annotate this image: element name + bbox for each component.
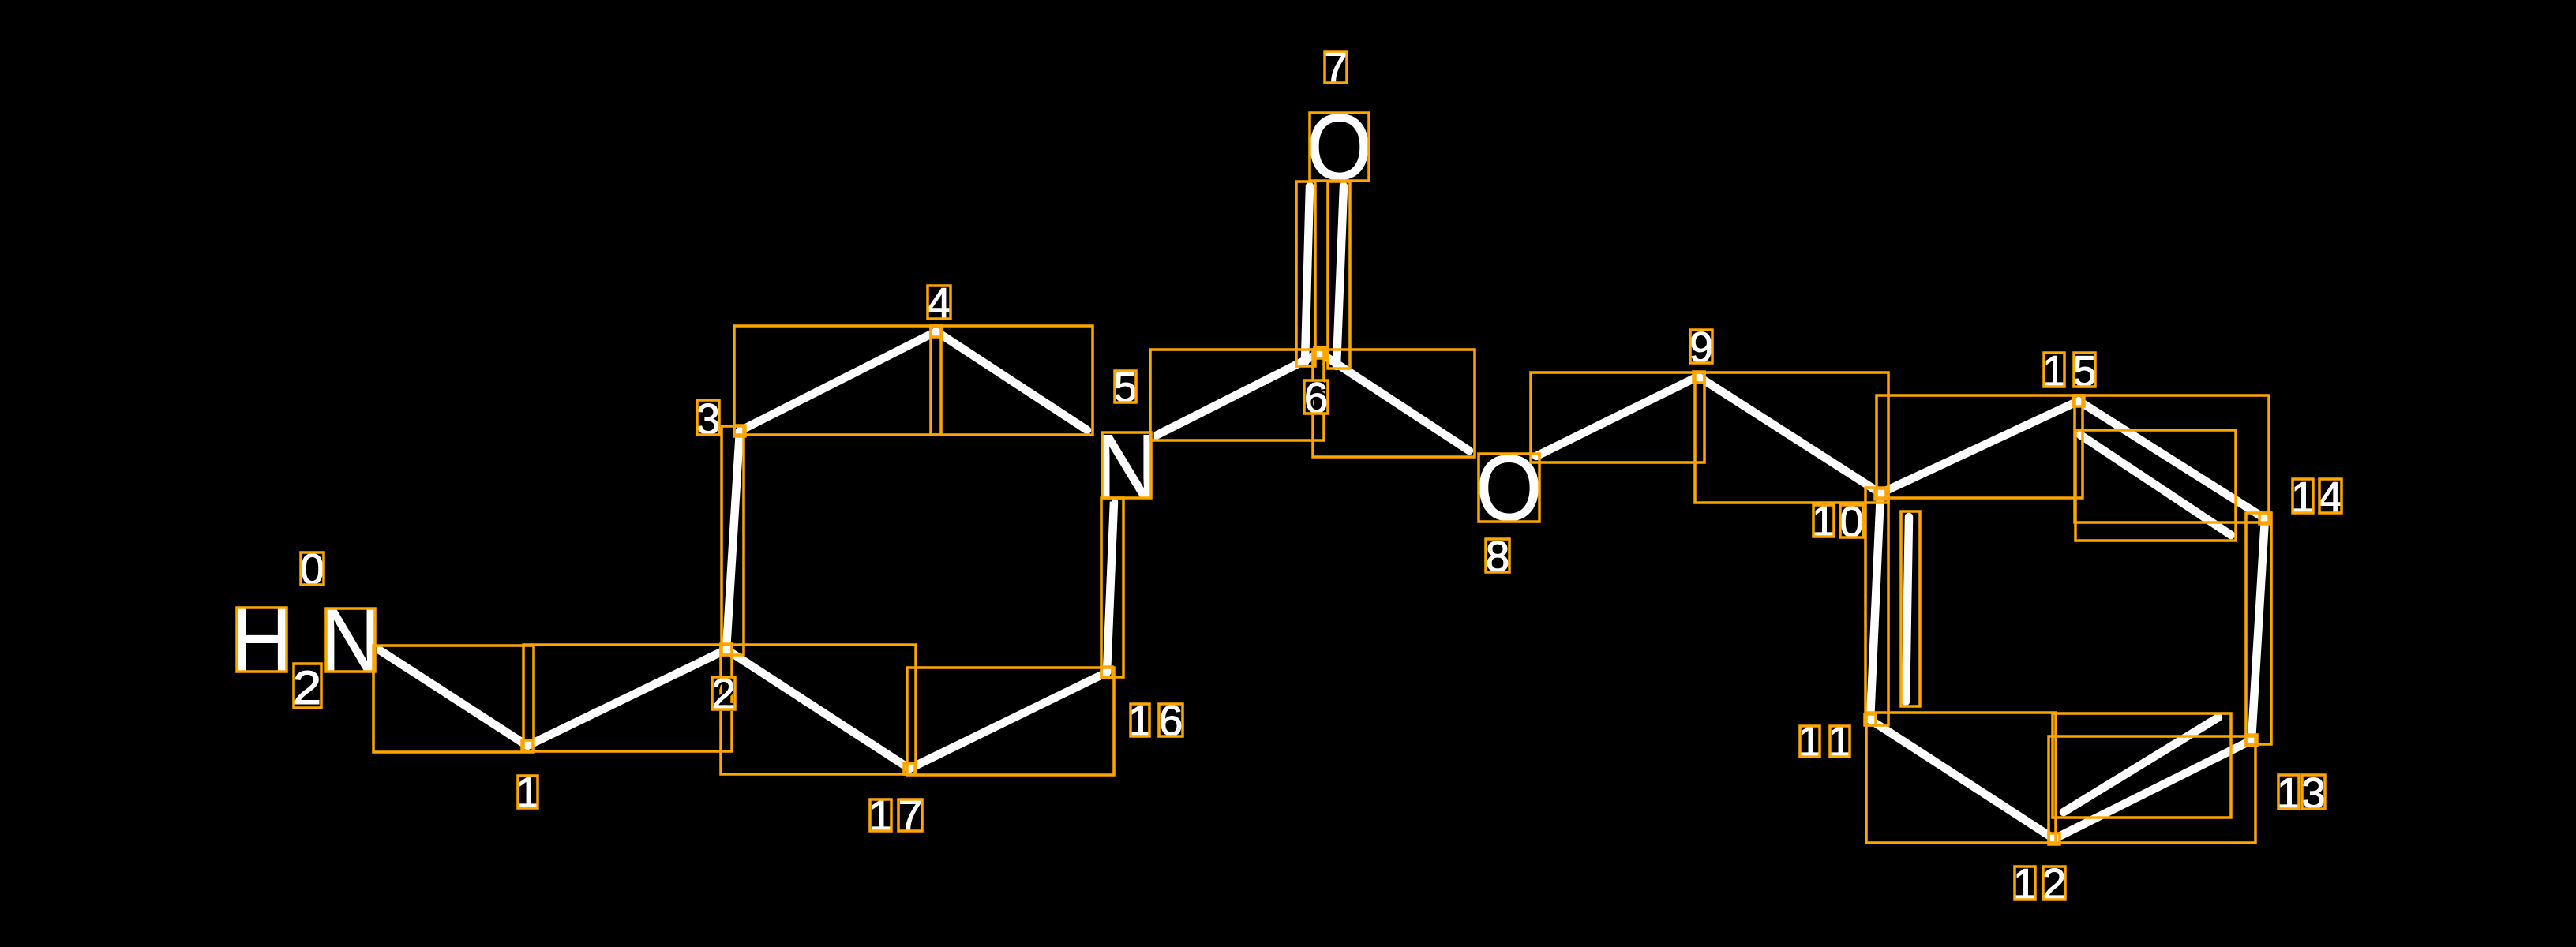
atom 0 glyph box H — [237, 608, 287, 672]
bond 14-15 outer line box — [2075, 395, 2269, 522]
index 7 box — [1325, 51, 1347, 83]
bond 6=7 right line box — [1328, 182, 1350, 369]
bond 6=7 left line box — [1296, 182, 1315, 366]
atom 15 vertex box — [2073, 395, 2084, 406]
svg-text:O: O — [1475, 436, 1542, 541]
index 17 digit 1 text — [868, 791, 893, 840]
atom 3 vertex box — [734, 425, 745, 436]
index 14 digit 4 box — [2319, 479, 2342, 513]
index 8 text — [1486, 532, 1510, 581]
bond 10-15 — [1880, 401, 2079, 493]
index 1 box — [518, 776, 538, 808]
bond 1-2 — [527, 649, 726, 746]
index 6 box — [1304, 380, 1328, 414]
bond 3-4 — [740, 331, 936, 431]
index 5 box — [1115, 371, 1136, 402]
bond 5-6 box — [1150, 350, 1324, 440]
atom 9 vertex box — [1693, 372, 1704, 383]
index 2 text — [711, 669, 736, 718]
bond 5-16 box — [1101, 498, 1123, 677]
double bond 12-13 inner line — [2064, 717, 2218, 812]
bond 14-15 inner line box — [2075, 430, 2236, 541]
bond 10-11 outer line box — [1865, 488, 1888, 725]
atom 14 vertex box — [2259, 513, 2270, 524]
bond 5-6 (N5-C6) — [1154, 353, 1320, 436]
atom 11 vertex box — [1865, 714, 1876, 725]
double bond 10-11 inner line — [1906, 517, 1909, 702]
double bond 14-15 inner line — [2080, 435, 2231, 535]
index 17 digit 7 text — [898, 791, 923, 840]
index 4 box — [928, 286, 951, 319]
index 14 digit 4 text — [2319, 473, 2343, 522]
index 13 digit 1 box — [2278, 775, 2299, 809]
index 12 digit 2 text — [2042, 859, 2067, 908]
atom 0 glyph box 2 — [294, 664, 321, 708]
index 15 digit 1 text — [2042, 346, 2067, 395]
index 3 text — [696, 395, 721, 444]
atom 7 glyph box O — [1310, 113, 1369, 181]
bond 0-1 box — [373, 646, 534, 752]
double bond 14-15 outer line — [2079, 401, 2265, 518]
index 17 digit 7 box — [898, 799, 922, 831]
atom 16 vertex box — [1101, 667, 1112, 678]
bond 6-8 (C6-O8) — [1320, 353, 1469, 451]
atom 17 vertex box — [904, 763, 915, 774]
index 12 digit 1 box — [2015, 867, 2035, 900]
index 12 digit 1 text — [2013, 859, 2038, 908]
index 10 digit 1 text — [1812, 496, 1836, 545]
atom 5 glyph box N — [1102, 432, 1151, 498]
index 10 digit 1 box — [1813, 505, 1834, 537]
atom 13 vertex box — [2246, 735, 2257, 746]
index 7 text — [1324, 43, 1348, 92]
bond 13-14 box — [2246, 513, 2271, 744]
atom 4 vertex box — [931, 326, 942, 337]
bond 17-2 box — [721, 645, 916, 774]
atom 8 label O — [1475, 436, 1542, 541]
atom 8 glyph box O — [1479, 454, 1539, 522]
double bond 12-13 outer line — [2054, 740, 2252, 839]
atom 7 label O — [1307, 95, 1372, 200]
index 12 digit 2 box — [2043, 867, 2065, 900]
index 11 digit 1b box — [1830, 726, 1850, 757]
atom 12 vertex box — [2049, 833, 2060, 844]
bond 16-17 — [909, 672, 1107, 769]
bond 5-16 (N5-C16) — [1107, 502, 1114, 672]
index 6 text — [1304, 373, 1329, 422]
double bond 6=7 right line — [1337, 186, 1344, 366]
index 0 text — [300, 545, 324, 593]
atom 0 label H — [230, 589, 294, 692]
index 13 digit 3 box — [2302, 775, 2325, 809]
atom 0 label N — [320, 590, 381, 691]
bond 4-5 box — [931, 326, 1093, 435]
index 1 text — [516, 768, 540, 817]
bond 10-11 inner line box — [1901, 511, 1920, 706]
atom 1 vertex box — [522, 740, 533, 751]
bond 12-13 outer line box — [2049, 736, 2255, 843]
index 8 box — [1486, 539, 1509, 572]
index 3 box — [697, 400, 719, 435]
bond 3-4 box — [734, 326, 941, 435]
index 9 box — [1690, 330, 1712, 363]
index 11 digit 1 box — [1800, 726, 1820, 757]
index 16 digit 1 text — [1128, 696, 1153, 745]
bond 2-3 box — [722, 426, 744, 655]
bond 9-10 — [1698, 376, 1880, 493]
index 10 digit 0 box — [1840, 505, 1863, 537]
bond 6-8 box — [1313, 350, 1475, 457]
index 14 digit 1 box — [2293, 479, 2313, 513]
index 15 digit 5 text — [2072, 346, 2097, 395]
index 14 digit 1 text — [2291, 473, 2315, 522]
index 11 digit 1 text — [1798, 717, 1822, 765]
atom 6 vertex box — [1314, 347, 1325, 358]
index 13 digit 1 text — [2277, 769, 2301, 818]
index 11 digit 1b text — [1828, 717, 1852, 765]
svg-text:N: N — [320, 590, 381, 691]
index 0 box — [301, 552, 324, 585]
double bond 10-11 outer line — [1870, 493, 1880, 720]
svg-text:2: 2 — [293, 661, 322, 714]
atom 5 label N — [1095, 415, 1159, 518]
atom 2 vertex box — [721, 644, 732, 655]
index 17 digit 1 box — [870, 799, 891, 831]
index 15 digit 1 box — [2044, 353, 2064, 387]
atom 0 label subscript 2 — [293, 661, 322, 714]
bond 13-14 — [2252, 518, 2265, 740]
bond 9-10 box — [1695, 372, 1888, 503]
index 9 text — [1689, 323, 1714, 372]
bond 17-2 — [726, 649, 909, 769]
index 13 digit 3 text — [2301, 769, 2326, 818]
bond 2-3 — [726, 431, 740, 649]
bond 4-5 (C4-N5) — [936, 331, 1087, 430]
index 15 digit 5 box — [2074, 353, 2095, 387]
svg-text:H: H — [230, 589, 294, 692]
index 2 box — [712, 677, 735, 709]
bond 1-2 box — [523, 645, 732, 751]
bond 8-9 (O8-C9) — [1536, 376, 1698, 456]
bond 10-15 box — [1877, 395, 2083, 498]
index 5 text — [1113, 362, 1138, 411]
bond 11-12 box — [1866, 713, 2056, 843]
index 16 digit 1 box — [1131, 704, 1149, 736]
index 16 digit 6 text — [1159, 696, 1183, 745]
bond 0-1 (N-C1) — [377, 649, 527, 746]
bond 11-12 — [1870, 720, 2054, 839]
index 16 digit 6 box — [1159, 704, 1183, 736]
bond 12-13 inner line box — [2053, 713, 2231, 818]
double bond 6=7 left line — [1305, 186, 1310, 362]
index 10 digit 0 text — [1839, 497, 1864, 546]
atom 10 vertex box — [1875, 488, 1886, 500]
bond 8-9 box — [1531, 372, 1704, 462]
atom 0 glyph box N — [326, 608, 375, 672]
index 4 text — [927, 279, 951, 328]
bond 16-17 box — [907, 668, 1114, 775]
